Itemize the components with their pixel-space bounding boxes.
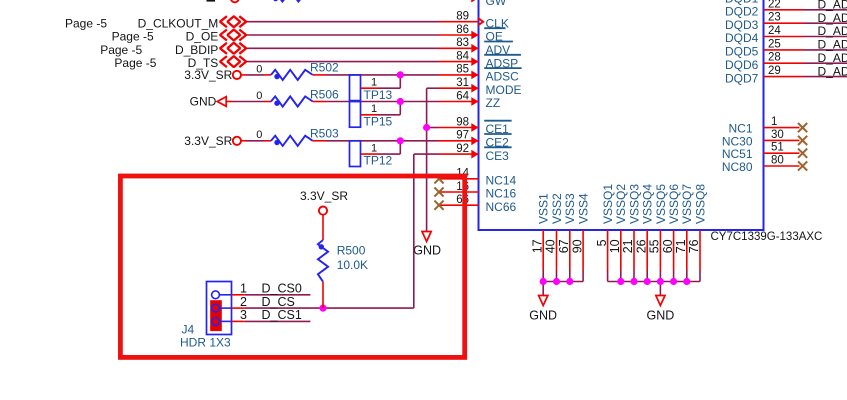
chip pin 60 VSSQ6: [673, 230, 675, 270]
svg-text:Page -5: Page -5: [114, 56, 156, 70]
svg-text:VSSQ7: VSSQ7: [680, 184, 694, 224]
chip pin 51 NC51 no-connect: [764, 152, 800, 154]
no-connect X for NC16: [434, 187, 443, 196]
node D_CS junction: [319, 305, 326, 312]
svg-text:TP12: TP12: [364, 154, 393, 168]
svg-text:17: 17: [530, 239, 544, 253]
svg-text:R506: R506: [310, 87, 339, 101]
svg-text:GND: GND: [413, 244, 441, 258]
svg-text:GND: GND: [647, 308, 675, 322]
svg-text:GW: GW: [486, 0, 507, 8]
svg-text:89: 89: [456, 11, 469, 23]
red annotation box: [120, 176, 464, 357]
wire D_BDIP to chip: [246, 47, 438, 49]
svg-text:26: 26: [634, 239, 648, 253]
svg-text:VSSQ4: VSSQ4: [641, 184, 655, 224]
svg-text:D_CS: D_CS: [262, 295, 295, 309]
chip pin 76 VSSQ8: [699, 230, 701, 270]
svg-text:3.3V_SR: 3.3V_SR: [184, 134, 232, 148]
off-page connector D_CLKOUT_M: [220, 16, 227, 27]
chip pin 30 NC30 no-connect: [764, 139, 800, 141]
wire D_CS0 stub: [245, 294, 311, 296]
ground GND symbol on MODE/CE1 net: [422, 232, 431, 242]
svg-text:D_CLKOUT_M: D_CLKOUT_M: [138, 16, 219, 30]
svg-text:GND: GND: [529, 308, 557, 322]
svg-text:R502: R502: [310, 61, 339, 75]
svg-text:VSSQ1: VSSQ1: [601, 184, 615, 224]
svg-text:VSS2: VSS2: [550, 193, 564, 224]
resistor R500 10.0K: [322, 215, 324, 240]
svg-text:3: 3: [240, 308, 247, 322]
svg-text:Page -5: Page -5: [100, 43, 142, 57]
svg-text:23: 23: [768, 12, 781, 24]
svg-text:0: 0: [256, 90, 262, 102]
no-connect X for NC14: [434, 174, 443, 183]
connector J4 pin 3: [212, 318, 220, 326]
svg-text:VSSQ2: VSSQ2: [614, 184, 628, 224]
svg-text:VSSQ8: VSSQ8: [693, 184, 707, 224]
svg-text:ZZ: ZZ: [486, 96, 501, 110]
svg-text:83: 83: [456, 37, 469, 49]
svg-text:85: 85: [456, 64, 469, 76]
svg-text:D_OE: D_OE: [186, 30, 219, 44]
svg-text:64: 64: [456, 90, 469, 102]
wire D_CLKOUT_M to chip: [246, 21, 438, 23]
chip pin 64 ZZ: [439, 101, 479, 103]
svg-text:VSS1: VSS1: [537, 193, 551, 224]
svg-text:D_AD5_M: D_AD5_M: [818, 64, 847, 78]
svg-text:30: 30: [771, 129, 784, 141]
wire D_TS to chip: [246, 61, 438, 63]
svg-text:98: 98: [456, 116, 469, 128]
ground GND symbol under VSSQ: [656, 296, 665, 306]
svg-text:CY7C1339G-133AXC: CY7C1339G-133AXC: [711, 231, 823, 243]
svg-text:71: 71: [674, 239, 688, 253]
chip pin 92 CE3: [439, 153, 479, 155]
svg-text:VSSQ6: VSSQ6: [667, 184, 681, 224]
svg-text:3.3V_SR: 3.3V_SR: [184, 68, 232, 82]
svg-text:67: 67: [557, 239, 571, 253]
off-page connector D_TS: [220, 56, 227, 67]
svg-text:0: 0: [256, 129, 262, 141]
chip pin 17 VSS1: [542, 230, 544, 270]
svg-text:2: 2: [240, 295, 247, 309]
svg-text:31: 31: [456, 77, 469, 89]
svg-text:DQD4: DQD4: [725, 31, 759, 45]
chip pin 10 VSSQ2: [620, 230, 622, 270]
svg-text:1: 1: [371, 143, 377, 155]
connector J4 body: [207, 282, 232, 335]
svg-text:TP13: TP13: [364, 88, 393, 102]
svg-text:VSS3: VSS3: [563, 193, 577, 224]
wire VSSQ ground bus with junctions: [608, 281, 700, 283]
wire D_CS net from CE3 down to J4: [414, 153, 439, 155]
chip pin 98 CE1: [439, 127, 479, 129]
svg-text:76: 76: [687, 239, 701, 253]
svg-text:GND: GND: [190, 95, 217, 109]
svg-text:92: 92: [456, 143, 469, 155]
svg-text:D_AD4_M: D_AD4_M: [818, 51, 847, 65]
chip pin 21 VSSQ3: [633, 230, 635, 270]
chip pin 84 ADSP: [439, 61, 479, 63]
chip pin 26 VSSQ4: [646, 230, 648, 270]
svg-text:D_AD3_M: D_AD3_M: [818, 38, 847, 52]
connector J4 red highlight: [210, 300, 222, 331]
chip pin 67 VSS3: [569, 230, 571, 270]
svg-text:DQD5: DQD5: [725, 45, 759, 59]
svg-text:10.0K: 10.0K: [337, 258, 368, 272]
svg-text:51: 51: [771, 142, 784, 154]
wire D_CS1 stub: [245, 320, 311, 322]
wire VSS ground bus with junctions: [543, 281, 583, 283]
chip pin 85 ADSC: [439, 74, 479, 76]
resistor fragment at top edge (cut off) feeding GW: [207, 0, 216, 2]
chip pin 16 NC16: [439, 191, 479, 193]
chip pin 55 VSSQ5: [659, 230, 661, 270]
svg-text:NC80: NC80: [722, 160, 753, 174]
svg-text:D_AD1_M: D_AD1_M: [818, 11, 847, 25]
svg-text:97: 97: [456, 130, 469, 142]
connector J4 pin 2: [212, 304, 220, 312]
svg-text:5: 5: [595, 239, 609, 246]
svg-text:1: 1: [240, 282, 247, 296]
svg-text:0: 0: [256, 63, 262, 75]
off-page connector D_OE: [220, 30, 227, 41]
svg-text:84: 84: [456, 50, 469, 62]
chip pin 31 MODE: [439, 87, 479, 89]
svg-text:1: 1: [371, 103, 377, 115]
chip pin 86 OE: [439, 34, 479, 36]
svg-text:NC66: NC66: [486, 200, 517, 214]
svg-text:3.3V_SR: 3.3V_SR: [300, 189, 348, 203]
test point TP12: [350, 141, 361, 167]
resistor R506 0 ohm: [226, 101, 233, 103]
test point TP15: [350, 102, 361, 128]
svg-text:10: 10: [608, 239, 622, 253]
chip pin 90 VSS4: [582, 230, 584, 270]
svg-text:VSSQ3: VSSQ3: [627, 184, 641, 224]
svg-text:MODE: MODE: [486, 83, 522, 97]
svg-text:VSS4: VSS4: [577, 193, 591, 224]
chip pin 97 CE2: [439, 140, 479, 142]
off-page connector D_BDIP: [220, 43, 227, 54]
svg-text:86: 86: [456, 24, 469, 36]
svg-text:DQD7: DQD7: [725, 71, 759, 85]
ground GND symbol under VSS: [539, 296, 548, 306]
svg-text:NC14: NC14: [486, 174, 517, 188]
svg-text:22: 22: [768, 0, 781, 10]
svg-text:24: 24: [768, 25, 781, 37]
no-connect X for NC66: [434, 201, 443, 210]
wire MODE/CE1 net vertical segment with junction: [427, 87, 439, 89]
resistor R502 0 ohm: [241, 74, 247, 76]
svg-text:28: 28: [768, 52, 781, 64]
svg-text:21: 21: [621, 239, 635, 253]
chip pin 14 NC14: [439, 178, 479, 180]
svg-text:DQD2: DQD2: [725, 5, 759, 19]
chip pin 5 VSSQ1: [607, 230, 609, 270]
svg-text:40: 40: [544, 239, 558, 253]
svg-text:D_AD0_M: D_AD0_M: [818, 0, 847, 12]
svg-text:VSSQ5: VSSQ5: [654, 184, 668, 224]
svg-text:R503: R503: [310, 127, 339, 141]
svg-text:D_BDIP: D_BDIP: [175, 43, 218, 57]
svg-text:R500: R500: [337, 244, 366, 258]
svg-text:55: 55: [648, 239, 662, 253]
test point TP13: [350, 75, 361, 101]
svg-text:Page -5: Page -5: [65, 16, 107, 30]
svg-text:25: 25: [768, 38, 781, 50]
svg-text:J4: J4: [182, 322, 195, 336]
svg-text:29: 29: [768, 65, 781, 77]
svg-text:Page -5: Page -5: [112, 30, 154, 44]
resistor R503 0 ohm: [241, 140, 247, 142]
svg-text:CE3: CE3: [486, 149, 510, 163]
chip pin 83 ADV: [439, 47, 479, 49]
svg-text:NC16: NC16: [486, 187, 517, 201]
svg-text:TP15: TP15: [364, 114, 393, 128]
wire D_CS from J4 pin 2 to vertical net: [245, 307, 414, 309]
svg-text:D_CS1: D_CS1: [262, 308, 302, 322]
svg-text:60: 60: [661, 239, 675, 253]
chip pin 89 CLK: [439, 21, 479, 23]
svg-text:1: 1: [771, 116, 777, 128]
wire D_OE to chip: [246, 34, 438, 36]
chip pin 40 VSS2: [556, 230, 558, 270]
svg-text:DQD3: DQD3: [725, 18, 759, 32]
svg-text:D_CS0: D_CS0: [262, 281, 302, 295]
IC CY7C1339G SRAM chip body outline: [479, 0, 764, 230]
svg-text:90: 90: [570, 239, 584, 253]
chip pin 66 NC66: [439, 204, 479, 206]
svg-text:HDR 1X3: HDR 1X3: [180, 335, 231, 349]
chip pin 1 NC1 no-connect: [764, 127, 800, 129]
chip pin 80 NC80 no-connect: [764, 165, 800, 167]
connector J4 pin 1: [212, 291, 220, 299]
chip pin 71 VSSQ7: [686, 230, 688, 270]
svg-text:ADSC: ADSC: [486, 70, 520, 84]
svg-text:80: 80: [771, 155, 784, 167]
svg-text:1: 1: [371, 77, 377, 89]
svg-text:DQD6: DQD6: [725, 58, 759, 72]
svg-text:D_AD2_M: D_AD2_M: [818, 24, 847, 38]
